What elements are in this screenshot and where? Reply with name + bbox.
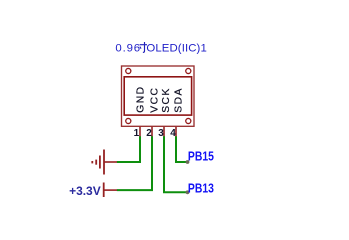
svg-text:SCK: SCK: [161, 87, 172, 113]
wire end dot PB15: [186, 160, 190, 164]
mounting hole top-left: [126, 68, 131, 73]
mounting hole bottom-left: [126, 118, 131, 123]
svg-text:GND: GND: [135, 85, 146, 112]
OLED module inner rectangle: [124, 77, 191, 115]
power port +3.3V bar: [104, 183, 117, 198]
svg-text:PB15: PB15: [188, 149, 214, 164]
mounting hole top-right: [186, 68, 191, 73]
OLED module outer outline: [122, 66, 195, 126]
wire pin3 to PB13: [164, 136, 188, 192]
svg-text:0.96: 0.96: [115, 43, 141, 55]
pin 2 (VCC): [146, 87, 160, 140]
wire end dot PB13: [186, 190, 190, 194]
svg-text:SDA: SDA: [173, 87, 184, 113]
mounting hole bottom-right: [186, 118, 191, 123]
wire pin4 to PB15: [176, 136, 188, 162]
svg-text:OLED(IIC)1: OLED(IIC)1: [146, 43, 207, 55]
ground symbol: [92, 150, 117, 175]
pin 1 (GND): [134, 85, 147, 139]
svg-text:PB13: PB13: [188, 181, 214, 196]
wire pin1 to ground: [117, 136, 140, 162]
pin 3 (SCK): [158, 87, 172, 139]
svg-text:1: 1: [134, 128, 140, 139]
wire pin2 to +3.3V: [117, 136, 152, 190]
svg-text:VCC: VCC: [149, 87, 160, 113]
component comment label "0.96寸OLED(IIC)1": [115, 42, 206, 55]
svg-text:+3.3V: +3.3V: [69, 184, 101, 198]
pin 4 (SDA): [170, 87, 184, 139]
